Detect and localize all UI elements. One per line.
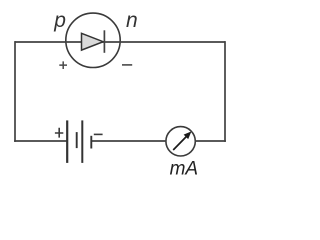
- wire bottom-mid (battery - plate to ammeter): [91, 140, 166, 142]
- wire left: [14, 41, 16, 142]
- ammeter needle arrowhead: [185, 132, 191, 138]
- battery BT1 plate 2 (short): [76, 132, 78, 148]
- battery BT1 plate 3 (long): [81, 120, 83, 162]
- diode + polarity mark: [59, 61, 67, 69]
- battery + mark: [55, 128, 63, 138]
- svg-text:n: n: [126, 9, 138, 32]
- ammeter circle M1: [166, 127, 195, 156]
- battery BT1 plate 4 (short, -): [90, 136, 92, 149]
- ammeter needle: [173, 135, 187, 150]
- svg-text:p: p: [53, 9, 66, 32]
- diode D1 triangle (anode): [82, 33, 104, 50]
- diode circle U1: [66, 13, 120, 67]
- wire bottom-left (corner to battery + plate): [14, 140, 67, 142]
- wire bottom-right (ammeter to corner): [195, 140, 226, 142]
- svg-text:mA: mA: [170, 159, 199, 180]
- battery BT1 plate 1 (long, +): [66, 120, 68, 162]
- diode - polarity mark: [122, 64, 132, 66]
- battery - mark: [94, 133, 103, 135]
- wire top: [15, 41, 225, 43]
- diode D1 cathode bar: [103, 30, 105, 53]
- wire right: [224, 41, 226, 142]
